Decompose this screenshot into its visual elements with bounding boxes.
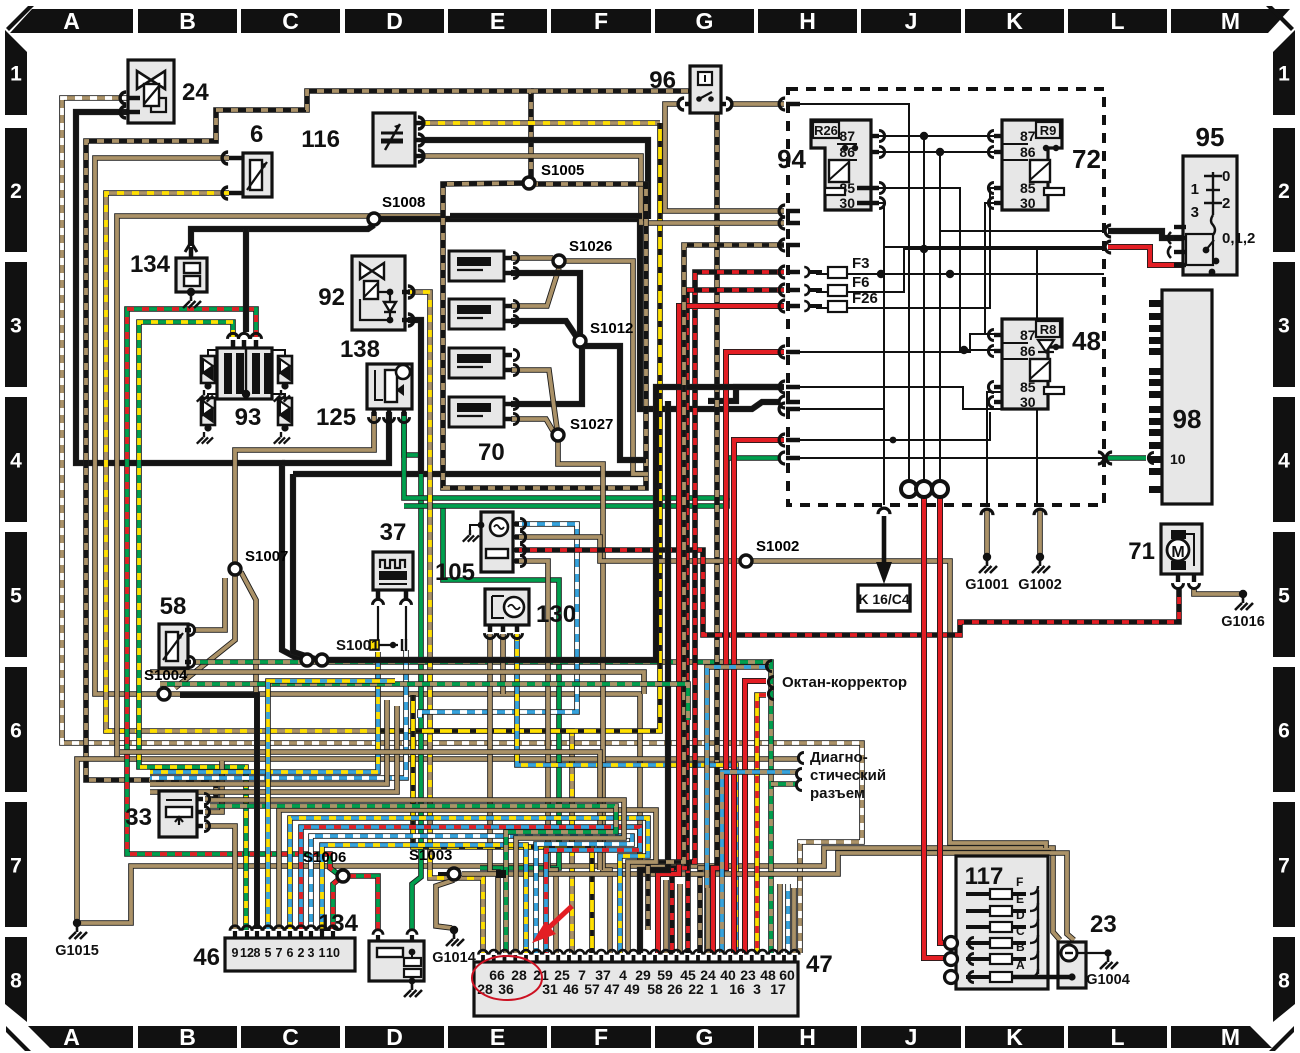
connector 46	[225, 938, 355, 971]
svg-text:F26: F26	[852, 290, 878, 307]
svg-text:H: H	[799, 8, 816, 34]
47 bundle extra stubs	[663, 880, 669, 953]
svg-text:3: 3	[10, 315, 22, 338]
svg-text:86: 86	[1020, 343, 1036, 359]
wire: brown row G1015 up + long row y759 to diag connector	[77, 759, 798, 923]
wire: brown corner x117 y216	[117, 216, 443, 759]
46 connector wires	[232, 866, 238, 929]
relay 72	[1002, 120, 1062, 210]
svg-text:58: 58	[160, 593, 187, 620]
svg-text:70: 70	[478, 439, 505, 466]
component 24 solenoid valve	[128, 60, 174, 123]
svg-text:S1027: S1027	[570, 416, 613, 433]
svg-text:S1026: S1026	[569, 238, 612, 255]
svg-text:4: 4	[10, 450, 22, 473]
svg-text:125: 125	[316, 404, 356, 431]
wire: brown/white stripe from 24 pin1 down left side to Diagnostic row	[62, 98, 862, 953]
svg-text:134: 134	[130, 251, 171, 278]
svg-text:G: G	[696, 8, 714, 34]
svg-text:S1005: S1005	[541, 162, 584, 179]
svg-text:Диагно-: Диагно-	[810, 749, 868, 766]
svg-text:G1015: G1015	[55, 943, 99, 959]
svg-text:1: 1	[710, 981, 718, 997]
motor 71	[1161, 524, 1202, 574]
component 92 idle valve	[352, 256, 405, 330]
svg-text:H: H	[799, 1024, 816, 1050]
wire: yellow/black vertical x660 down to row y731	[380, 123, 660, 731]
svg-text:R26: R26	[814, 123, 838, 138]
svg-text:37: 37	[380, 519, 407, 546]
svg-text:33: 33	[125, 804, 152, 831]
G1016 ground	[1239, 590, 1247, 598]
injectors 70	[449, 251, 504, 281]
svg-text:3: 3	[1191, 204, 1199, 221]
wire: green/red from coil pin3 left x127 down to S1006 then 134	[127, 309, 338, 874]
wire: brown/black stripe from S1005 right then down into bundle	[531, 91, 717, 953]
component 134 bottom	[369, 941, 424, 981]
svg-text:3: 3	[308, 946, 315, 960]
svg-text:46: 46	[563, 981, 579, 997]
component 6 temp sensor	[243, 153, 272, 197]
svg-text:C: C	[282, 1024, 299, 1050]
wire: green/brown 58 pin2 row right to diag connector pin3	[193, 662, 771, 953]
fuse F6	[828, 285, 847, 296]
svg-text:M: M	[1221, 8, 1240, 34]
svg-text:A: A	[63, 1024, 80, 1050]
G1014 ground	[450, 926, 458, 934]
46 pin rows across to 47 bundle	[279, 810, 656, 953]
component 138	[367, 364, 412, 409]
K16/C4 arrow	[878, 508, 890, 514]
svg-text:K: K	[1006, 1024, 1023, 1050]
svg-text:F: F	[1016, 875, 1023, 889]
svg-text:17: 17	[770, 981, 786, 997]
red ellipse annotation	[472, 956, 542, 1000]
component 33	[159, 791, 197, 837]
wire: black/red F6 wire	[672, 290, 784, 953]
extra brown rows density band	[150, 672, 644, 694]
wire: green from 138 pin3 down to row y498 right to 98 pin10	[404, 412, 781, 498]
svg-text:S1004: S1004	[144, 667, 188, 684]
svg-text:C: C	[282, 8, 299, 34]
svg-text:138: 138	[340, 336, 380, 363]
svg-text:1: 1	[1278, 63, 1290, 86]
svg-text:95: 95	[1196, 122, 1225, 152]
svg-text:D: D	[386, 8, 403, 34]
svg-text:94: 94	[777, 144, 806, 174]
wire: yellow/black vertical x413	[413, 695, 592, 953]
svg-text:A: A	[1016, 958, 1025, 972]
svg-text:96: 96	[649, 67, 676, 94]
wire: brown 2nd at G1015 loop right to 23	[77, 848, 1060, 940]
wire: black/brown stripe zigzag from left x86 up to S1005, and down to 33 pin1	[86, 91, 531, 799]
svg-text:3: 3	[753, 981, 761, 997]
svg-text:M: M	[1221, 1024, 1240, 1050]
svg-text:F6: F6	[852, 274, 870, 291]
svg-text:8: 8	[1278, 970, 1290, 993]
svg-text:6: 6	[10, 720, 22, 743]
injector harness blacks to S1012	[511, 273, 580, 335]
wire: 96 switch browns to ECU	[665, 104, 784, 211]
wire: brown 138 pin1 down to S1007	[235, 412, 374, 563]
svg-text:30: 30	[1020, 394, 1036, 410]
S1003 junction	[448, 868, 460, 880]
wire: black from 24 pin2 down left side to row y463 to S1001	[76, 112, 510, 660]
K16/C4 box	[858, 585, 910, 611]
ECU dashed box	[788, 89, 1104, 505]
fuse F3	[828, 267, 847, 278]
svg-text:стический: стический	[810, 767, 886, 784]
wire: black/red F3 wire	[688, 272, 784, 953]
svg-text:F3: F3	[852, 255, 870, 272]
svg-text:4: 4	[1278, 450, 1290, 473]
svg-text:105: 105	[435, 559, 475, 586]
svg-text:86: 86	[1020, 144, 1036, 160]
svg-text:36: 36	[498, 981, 514, 997]
svg-text:S1006: S1006	[303, 849, 346, 866]
ECU circles at bottom dashed edge	[901, 481, 917, 497]
svg-text:134: 134	[318, 910, 359, 937]
svg-text:S1001: S1001	[336, 637, 379, 654]
svg-text:87: 87	[1020, 327, 1036, 343]
svg-text:10: 10	[326, 946, 340, 960]
wire: brown/black to ECU hook y245	[648, 245, 784, 930]
svg-text:D: D	[1016, 908, 1025, 922]
wire: black U-stub near ECU edge	[708, 387, 778, 401]
svg-text:30: 30	[839, 195, 855, 211]
svg-text:G1002: G1002	[1018, 577, 1062, 593]
wire: green row y506 to x727	[404, 498, 727, 506]
svg-text:46: 46	[193, 944, 220, 971]
svg-text:1: 1	[1191, 181, 1199, 198]
svg-text:S1007: S1007	[245, 548, 288, 565]
wire: black ECU hook y387 to S1001 row	[329, 387, 784, 660]
wire: brown/yellow from 116 pin1 right	[423, 120, 660, 126]
component 23	[1058, 942, 1086, 988]
wire: green/red 46 pin10 to S1006	[333, 879, 339, 929]
svg-text:8: 8	[10, 970, 22, 993]
svg-text:16: 16	[729, 981, 745, 997]
svg-text:E: E	[490, 8, 505, 34]
svg-text:8: 8	[254, 946, 261, 960]
connector 47	[474, 962, 798, 1016]
wire: diag connector pin2 blue/brown	[722, 772, 797, 953]
svg-text:87: 87	[839, 128, 855, 144]
component 37	[373, 552, 413, 590]
wire: green from 138 area down x421 to 134b pin2	[404, 412, 421, 931]
wire: blue/white 37 pin2 down row y778 left	[150, 650, 406, 778]
thin red-net line inside ECU y440	[786, 412, 990, 440]
wire: red/black 105 pin3 to motor 71	[515, 550, 1179, 635]
thin line across ECU for 98 pin10 net	[786, 457, 1104, 459]
svg-text:7: 7	[10, 855, 22, 878]
svg-text:5: 5	[10, 585, 22, 608]
wire: motor 71 brown to G1016	[1194, 588, 1243, 594]
svg-text:130: 130	[536, 601, 576, 628]
wire: green/yellow from coil pin1 left x139 down row y767 to 46 pin12	[139, 322, 246, 930]
wire: brown 105 pin4 down into bundle	[515, 561, 556, 953]
injector browns to S1027	[511, 370, 557, 429]
wire: black from 134 top to S1008, thick black into ECU region	[191, 225, 374, 246]
component 130	[485, 589, 529, 625]
svg-text:6: 6	[1278, 720, 1290, 743]
svg-text:30: 30	[1020, 195, 1036, 211]
svg-text:47: 47	[806, 951, 833, 978]
wire: black row y474 going right	[293, 471, 648, 477]
svg-text:разъем: разъем	[810, 785, 865, 802]
wire: Oktan corrector wires	[707, 667, 766, 953]
svg-text:48: 48	[1072, 326, 1101, 356]
component 58	[159, 624, 188, 668]
svg-text:G: G	[696, 1024, 714, 1050]
svg-text:0: 0	[1222, 168, 1230, 185]
svg-text:R8: R8	[1040, 322, 1057, 337]
svg-text:22: 22	[688, 981, 704, 997]
svg-text:31: 31	[542, 981, 558, 997]
svg-text:C: C	[1016, 924, 1025, 938]
svg-text:9: 9	[232, 946, 239, 960]
svg-text:117: 117	[965, 863, 1004, 890]
svg-text:7: 7	[276, 946, 283, 960]
wire: brown 130 pin2	[500, 634, 506, 694]
text: Oktan-korrektor	[766, 661, 771, 672]
wire: black coil pin2 drop	[243, 229, 249, 332]
svg-text:F: F	[594, 8, 608, 34]
wire: blue/yellow 37 pin1 down row y772 left	[150, 652, 378, 772]
component 134 pressure valve (top)	[176, 258, 207, 292]
95 switch feeds	[1108, 231, 1183, 238]
svg-text:G1004: G1004	[1086, 972, 1130, 988]
svg-text:J: J	[905, 8, 918, 34]
svg-text:S1012: S1012	[590, 320, 633, 337]
svg-text:3: 3	[1278, 315, 1290, 338]
svg-text:M: M	[1171, 544, 1184, 561]
wire: brown S1003 link right to 23 riser	[462, 853, 1074, 940]
svg-text:S1002: S1002	[756, 538, 799, 555]
wire: green stub into 98 pin10	[1106, 455, 1146, 461]
svg-text:E: E	[1016, 892, 1024, 906]
svg-text:2: 2	[298, 946, 305, 960]
svg-text:A: A	[63, 8, 80, 34]
wire: brown 33 pin2 up to row y759	[205, 761, 222, 812]
ignition switch 95	[1183, 156, 1237, 275]
svg-text:0,1,2: 0,1,2	[1222, 230, 1255, 247]
wire: brown/yellow from 92 pin1 down x430 into bundle	[408, 292, 483, 953]
text: diagnostic connector	[798, 753, 804, 764]
svg-text:116: 116	[301, 126, 340, 153]
svg-text:24: 24	[182, 79, 209, 106]
svg-text:F: F	[594, 1024, 608, 1050]
svg-text:R9: R9	[1040, 123, 1057, 138]
svg-text:B: B	[179, 8, 196, 34]
wire: brown 33 pin3 down to row y868	[205, 826, 235, 866]
svg-text:6: 6	[287, 946, 294, 960]
spark plugs 125	[201, 356, 215, 383]
svg-text:92: 92	[318, 284, 345, 311]
svg-text:98: 98	[1173, 404, 1202, 434]
wire: brown/yellow from 6 pin2 down left, row y730 right, into 47 bundle	[106, 193, 572, 953]
component 93 ignition coil	[217, 348, 272, 399]
border frame	[10, 9, 133, 33]
svg-text:1: 1	[319, 946, 326, 960]
svg-text:5: 5	[1278, 585, 1290, 608]
svg-text:2: 2	[1222, 195, 1230, 212]
svg-text:2: 2	[1278, 180, 1290, 203]
wire: brown rows y784 y792 left	[150, 700, 387, 784]
wire: blue/white 105 pin1 down	[420, 524, 577, 718]
svg-text:47: 47	[604, 981, 620, 997]
svg-text:93: 93	[235, 404, 262, 431]
svg-text:26: 26	[667, 981, 683, 997]
svg-text:G1001: G1001	[965, 577, 1009, 593]
thin mesh inside ECU	[790, 104, 909, 482]
svg-text:71: 71	[1128, 538, 1155, 565]
wire: black 2nd branch to S1001 circle2	[293, 474, 318, 660]
svg-text:J: J	[905, 1024, 918, 1050]
wire: inner black box 70	[450, 213, 642, 219]
svg-text:23: 23	[1090, 911, 1117, 938]
G1001 ground	[981, 509, 993, 515]
svg-text:E: E	[490, 1024, 505, 1050]
svg-text:87: 87	[1020, 128, 1036, 144]
wire: black 116 pin2	[423, 140, 648, 219]
svg-text:L: L	[1110, 1024, 1124, 1050]
svg-text:K 16/C4: K 16/C4	[858, 591, 910, 607]
wire: black from 92 pin2 down x421 to row y474	[408, 320, 421, 474]
svg-text:49: 49	[624, 981, 640, 997]
svg-text:7: 7	[1278, 855, 1290, 878]
fuse F26	[828, 301, 847, 312]
wire: striped box 70 outline (black/brown wire)	[443, 183, 646, 488]
wire: reds from ECU circles down to 117	[924, 497, 948, 958]
wire: brown 130 pin1 down	[490, 634, 498, 953]
svg-text:5: 5	[265, 946, 272, 960]
wire: green row y506	[443, 506, 559, 868]
wire: brown 116 pin3 to ECU y223	[423, 156, 784, 223]
ECU right edge hooks for 95 wires	[1105, 225, 1111, 237]
component 96	[690, 66, 721, 113]
svg-text:S1008: S1008	[382, 194, 425, 211]
svg-text:B: B	[1016, 940, 1025, 954]
G1015 ground	[73, 919, 81, 927]
component 105	[481, 512, 513, 572]
wire: red hook y440	[734, 440, 784, 953]
relay 94	[811, 120, 871, 210]
connector 117 fuse box	[956, 856, 1048, 989]
ECU unit 98	[1162, 290, 1212, 504]
wire: ECU bottom brown stubs to G1001 G1002	[984, 510, 990, 556]
svg-text:B: B	[179, 1024, 196, 1050]
wire: brown G1014 from S1003	[436, 880, 454, 928]
wire: black 138 pin2 short drop	[282, 412, 389, 463]
S1006 junction	[337, 870, 349, 882]
junctions	[523, 177, 535, 189]
svg-text:G1016: G1016	[1221, 614, 1265, 630]
wire: brown 58 pin1 up to S1007	[193, 578, 225, 630]
svg-text:2: 2	[10, 180, 22, 203]
wire: black vertical x668 down into 47	[640, 401, 668, 953]
svg-text:D: D	[386, 1024, 403, 1050]
svg-text:Октан-корректор: Октан-корректор	[782, 674, 907, 691]
svg-text:1: 1	[10, 63, 22, 86]
wire: blue/yellow 130 pin3 row y765 right into bundle	[517, 634, 736, 953]
wire: brown S1002 right down to 23	[751, 561, 1046, 848]
wire: red from ECU hook y352 down into bundle	[713, 352, 784, 953]
svg-text:6: 6	[250, 121, 263, 148]
svg-text:G1014: G1014	[432, 950, 476, 966]
wire: brown S1007 to S1004 diagonal	[175, 575, 235, 688]
svg-text:12: 12	[240, 946, 254, 960]
wire: brown from 6 pin1 down left, row to S1004 then right	[95, 158, 640, 870]
G1002 ground	[1034, 509, 1046, 515]
ECU left edge hooks	[779, 98, 785, 110]
svg-text:S1003: S1003	[409, 847, 452, 864]
svg-text:58: 58	[647, 981, 663, 997]
component 116	[373, 113, 415, 166]
svg-text:10: 10	[1170, 451, 1186, 467]
svg-text:72: 72	[1072, 144, 1101, 174]
wire: red F26 wire	[658, 306, 784, 953]
relay 48	[1002, 319, 1062, 409]
injector harness browns	[511, 255, 553, 261]
svg-text:L: L	[1110, 8, 1124, 34]
svg-text:57: 57	[584, 981, 600, 997]
svg-text:K: K	[1006, 8, 1023, 34]
wire: brown 105 pin2 to S1002 row	[515, 537, 741, 561]
red arrow annotation	[542, 906, 572, 934]
